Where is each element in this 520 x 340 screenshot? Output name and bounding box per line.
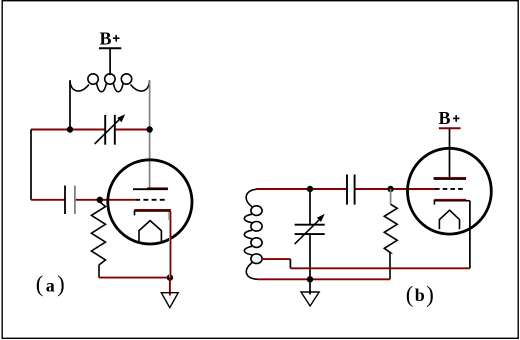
svg-text:B: B [99, 29, 111, 49]
svg-text:a: a [46, 276, 55, 296]
svg-text:B: B [438, 108, 450, 128]
svg-text:b: b [415, 285, 425, 305]
svg-text:(: ( [406, 282, 414, 307]
svg-text:): ) [426, 282, 434, 307]
svg-text:): ) [57, 271, 65, 296]
svg-text:(: ( [36, 271, 44, 296]
